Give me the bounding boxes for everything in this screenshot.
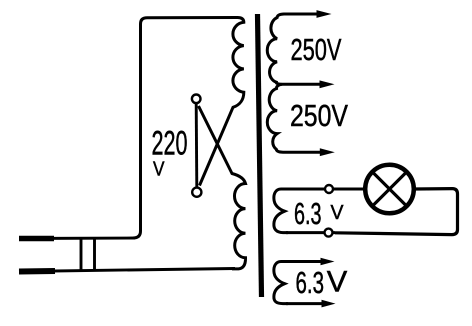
wire: 6.3V winding no.2 top lead (286, 260, 324, 263)
wire: lamp winding bottom lead (286, 231, 335, 234)
switch S1 upper contact (192, 95, 201, 104)
arrow: HV winding bottom tap (320, 148, 335, 156)
svg-text:220: 220 (152, 125, 188, 163)
svg-text:V: V (327, 266, 348, 299)
svg-text:250V: 250V (290, 98, 348, 133)
svg-text:6.3: 6.3 (296, 265, 325, 300)
arrow: HV winding top tap (317, 10, 332, 18)
wire: lamp loop right side (335, 189, 458, 235)
transformer T1 primary winding, upper half (with lead from mains top wire) (133, 18, 244, 239)
capacitor C1 (line-filter across mains) (81, 238, 95, 273)
arrow: 6.3V winding no.2 top tap (321, 258, 335, 266)
transformer T1 secondary 6.3V winding no.2 (274, 262, 288, 304)
svg-text:250V: 250V (291, 32, 342, 67)
transformer T1 primary winding, lower half (to mains bottom wire) (199, 106, 246, 269)
svg-text:6.3: 6.3 (294, 196, 322, 231)
wire: lamp winding top lead (286, 188, 364, 191)
transformer T1 secondary HV winding (two 250V sections with centre tap) (267, 14, 322, 152)
switch S1 lower contact (192, 188, 201, 197)
arrow: HV winding centre tap (320, 80, 335, 88)
terminal contact on lamp winding bottom lead (325, 229, 333, 237)
transformer T1 core (258, 14, 262, 297)
wire: mains bottom conductor with plug prong (19, 269, 235, 272)
switch S1 link wire between selector contacts (195, 104, 199, 188)
arrow: 6.3V winding no.2 bottom tap (322, 300, 336, 308)
terminal contact on lamp winding top lead (325, 185, 333, 193)
wire: mains top conductor with plug prong (19, 235, 135, 241)
svg-text:V: V (153, 159, 165, 181)
svg-text:V: V (331, 201, 344, 224)
wire: 6.3V winding no.2 bottom lead (286, 302, 325, 305)
transformer T1 secondary 6.3V winding no.1 (lamp winding) (274, 189, 288, 233)
lamp HL1 (pilot lamp) (365, 165, 414, 214)
label: 220 V primary voltage (152, 125, 188, 181)
